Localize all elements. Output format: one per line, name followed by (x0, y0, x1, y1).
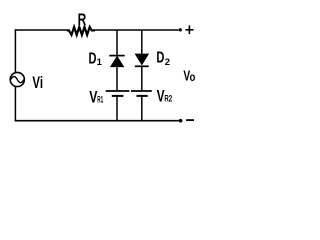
label R (78, 11, 87, 29)
label D2 (156, 49, 170, 68)
wire branch D2 middle (141, 66, 143, 90)
plus sign (185, 25, 193, 34)
svg-text:R1: R1 (97, 94, 103, 104)
wire branch D1 upper (116, 30, 118, 55)
svg-text:Vi: Vi (32, 74, 43, 92)
wire branch D2 upper (141, 30, 143, 55)
wire branch D1 middle (116, 67, 118, 91)
svg-text:R: R (78, 11, 87, 29)
svg-text:o: o (190, 72, 196, 84)
svg-text:2: 2 (165, 57, 170, 68)
diode D1 (109, 56, 124, 67)
battery VR1 (106, 91, 130, 96)
wire branch D1 lower (116, 97, 118, 121)
label Vi (32, 74, 43, 92)
label VR1 (89, 88, 103, 106)
node - terminal dot (179, 119, 183, 123)
svg-text:D: D (156, 49, 164, 66)
wire top-left horizontal (15, 29, 67, 31)
wire branch D2 lower (141, 97, 143, 121)
minus sign (186, 119, 194, 121)
node + terminal dot (179, 28, 182, 31)
wire bottom horizontal (15, 120, 179, 122)
source Vi (AC) (10, 72, 24, 86)
resistor R (67, 27, 95, 35)
svg-text:1: 1 (97, 57, 103, 68)
svg-text:D: D (89, 50, 97, 67)
svg-text:V: V (89, 88, 97, 106)
wire left vertical upper (14, 29, 16, 72)
label Vo (183, 67, 195, 84)
diode D2 (135, 54, 149, 66)
wire left vertical lower (14, 87, 16, 121)
battery VR2 (131, 91, 152, 96)
label VR2 (157, 87, 172, 105)
label D1 (89, 50, 103, 68)
wire top-right horizontal (95, 29, 179, 31)
svg-text:R2: R2 (164, 94, 172, 104)
